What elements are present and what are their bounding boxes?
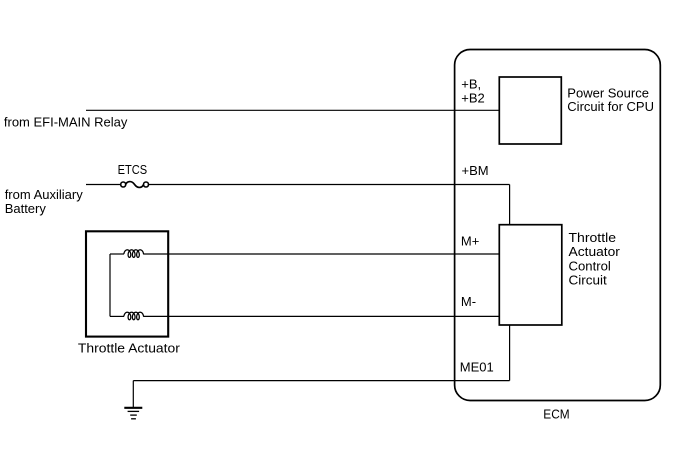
wire: fuse to +BM pin <box>148 184 509 186</box>
wire: motor winding common vertical <box>109 254 111 316</box>
wire: down to ground <box>132 381 134 407</box>
fuse ETCS <box>121 182 149 188</box>
wire: lower winding to M- pin <box>143 315 499 317</box>
svg-text:Battery: Battery <box>5 201 47 216</box>
svg-text:Throttle: Throttle <box>569 230 617 245</box>
wire: motor winding left link (upper) <box>110 253 124 255</box>
svg-text:Throttle Actuator: Throttle Actuator <box>78 341 181 356</box>
svg-text:Actuator: Actuator <box>569 244 621 259</box>
wire: +BM node down to Throttle Actuator Control Circuit <box>509 185 511 226</box>
Throttle Actuator Control Circuit box <box>499 225 562 325</box>
svg-text:from Auxiliary: from Auxiliary <box>5 187 84 202</box>
svg-text:Circuit: Circuit <box>569 273 608 288</box>
wire: ME01 to ground run <box>133 380 509 382</box>
Power Source Circuit for CPU box <box>499 77 561 144</box>
ECM outer box <box>455 50 661 401</box>
svg-text:ECM: ECM <box>543 406 569 421</box>
svg-text:from EFI-MAIN Relay: from EFI-MAIN Relay <box>4 115 128 130</box>
wire: control circuit down to ME01 <box>509 325 511 381</box>
svg-text:Power Source: Power Source <box>567 85 649 100</box>
svg-text:ETCS: ETCS <box>118 162 148 177</box>
svg-text:+BM: +BM <box>462 163 489 178</box>
inductor coil L2 lower winding <box>124 312 144 320</box>
svg-text:M-: M- <box>461 294 476 309</box>
wire: motor winding left link (lower) <box>110 315 124 317</box>
wire: from Auxiliary Battery to fuse <box>86 184 121 186</box>
svg-text:Control: Control <box>569 258 611 273</box>
svg-text:+B,: +B, <box>461 77 481 92</box>
wire: upper winding to M+ pin <box>143 253 499 255</box>
Throttle Actuator box <box>86 231 168 336</box>
ground symbol <box>124 408 142 419</box>
inductor coil L1 upper winding <box>124 250 144 258</box>
svg-text:Circuit for CPU: Circuit for CPU <box>567 99 654 114</box>
svg-text:ME01: ME01 <box>460 360 494 375</box>
svg-text:+B2: +B2 <box>461 90 485 105</box>
svg-text:M+: M+ <box>461 234 479 249</box>
wire: from EFI-MAIN Relay to +B/+B2 pin <box>86 109 499 111</box>
